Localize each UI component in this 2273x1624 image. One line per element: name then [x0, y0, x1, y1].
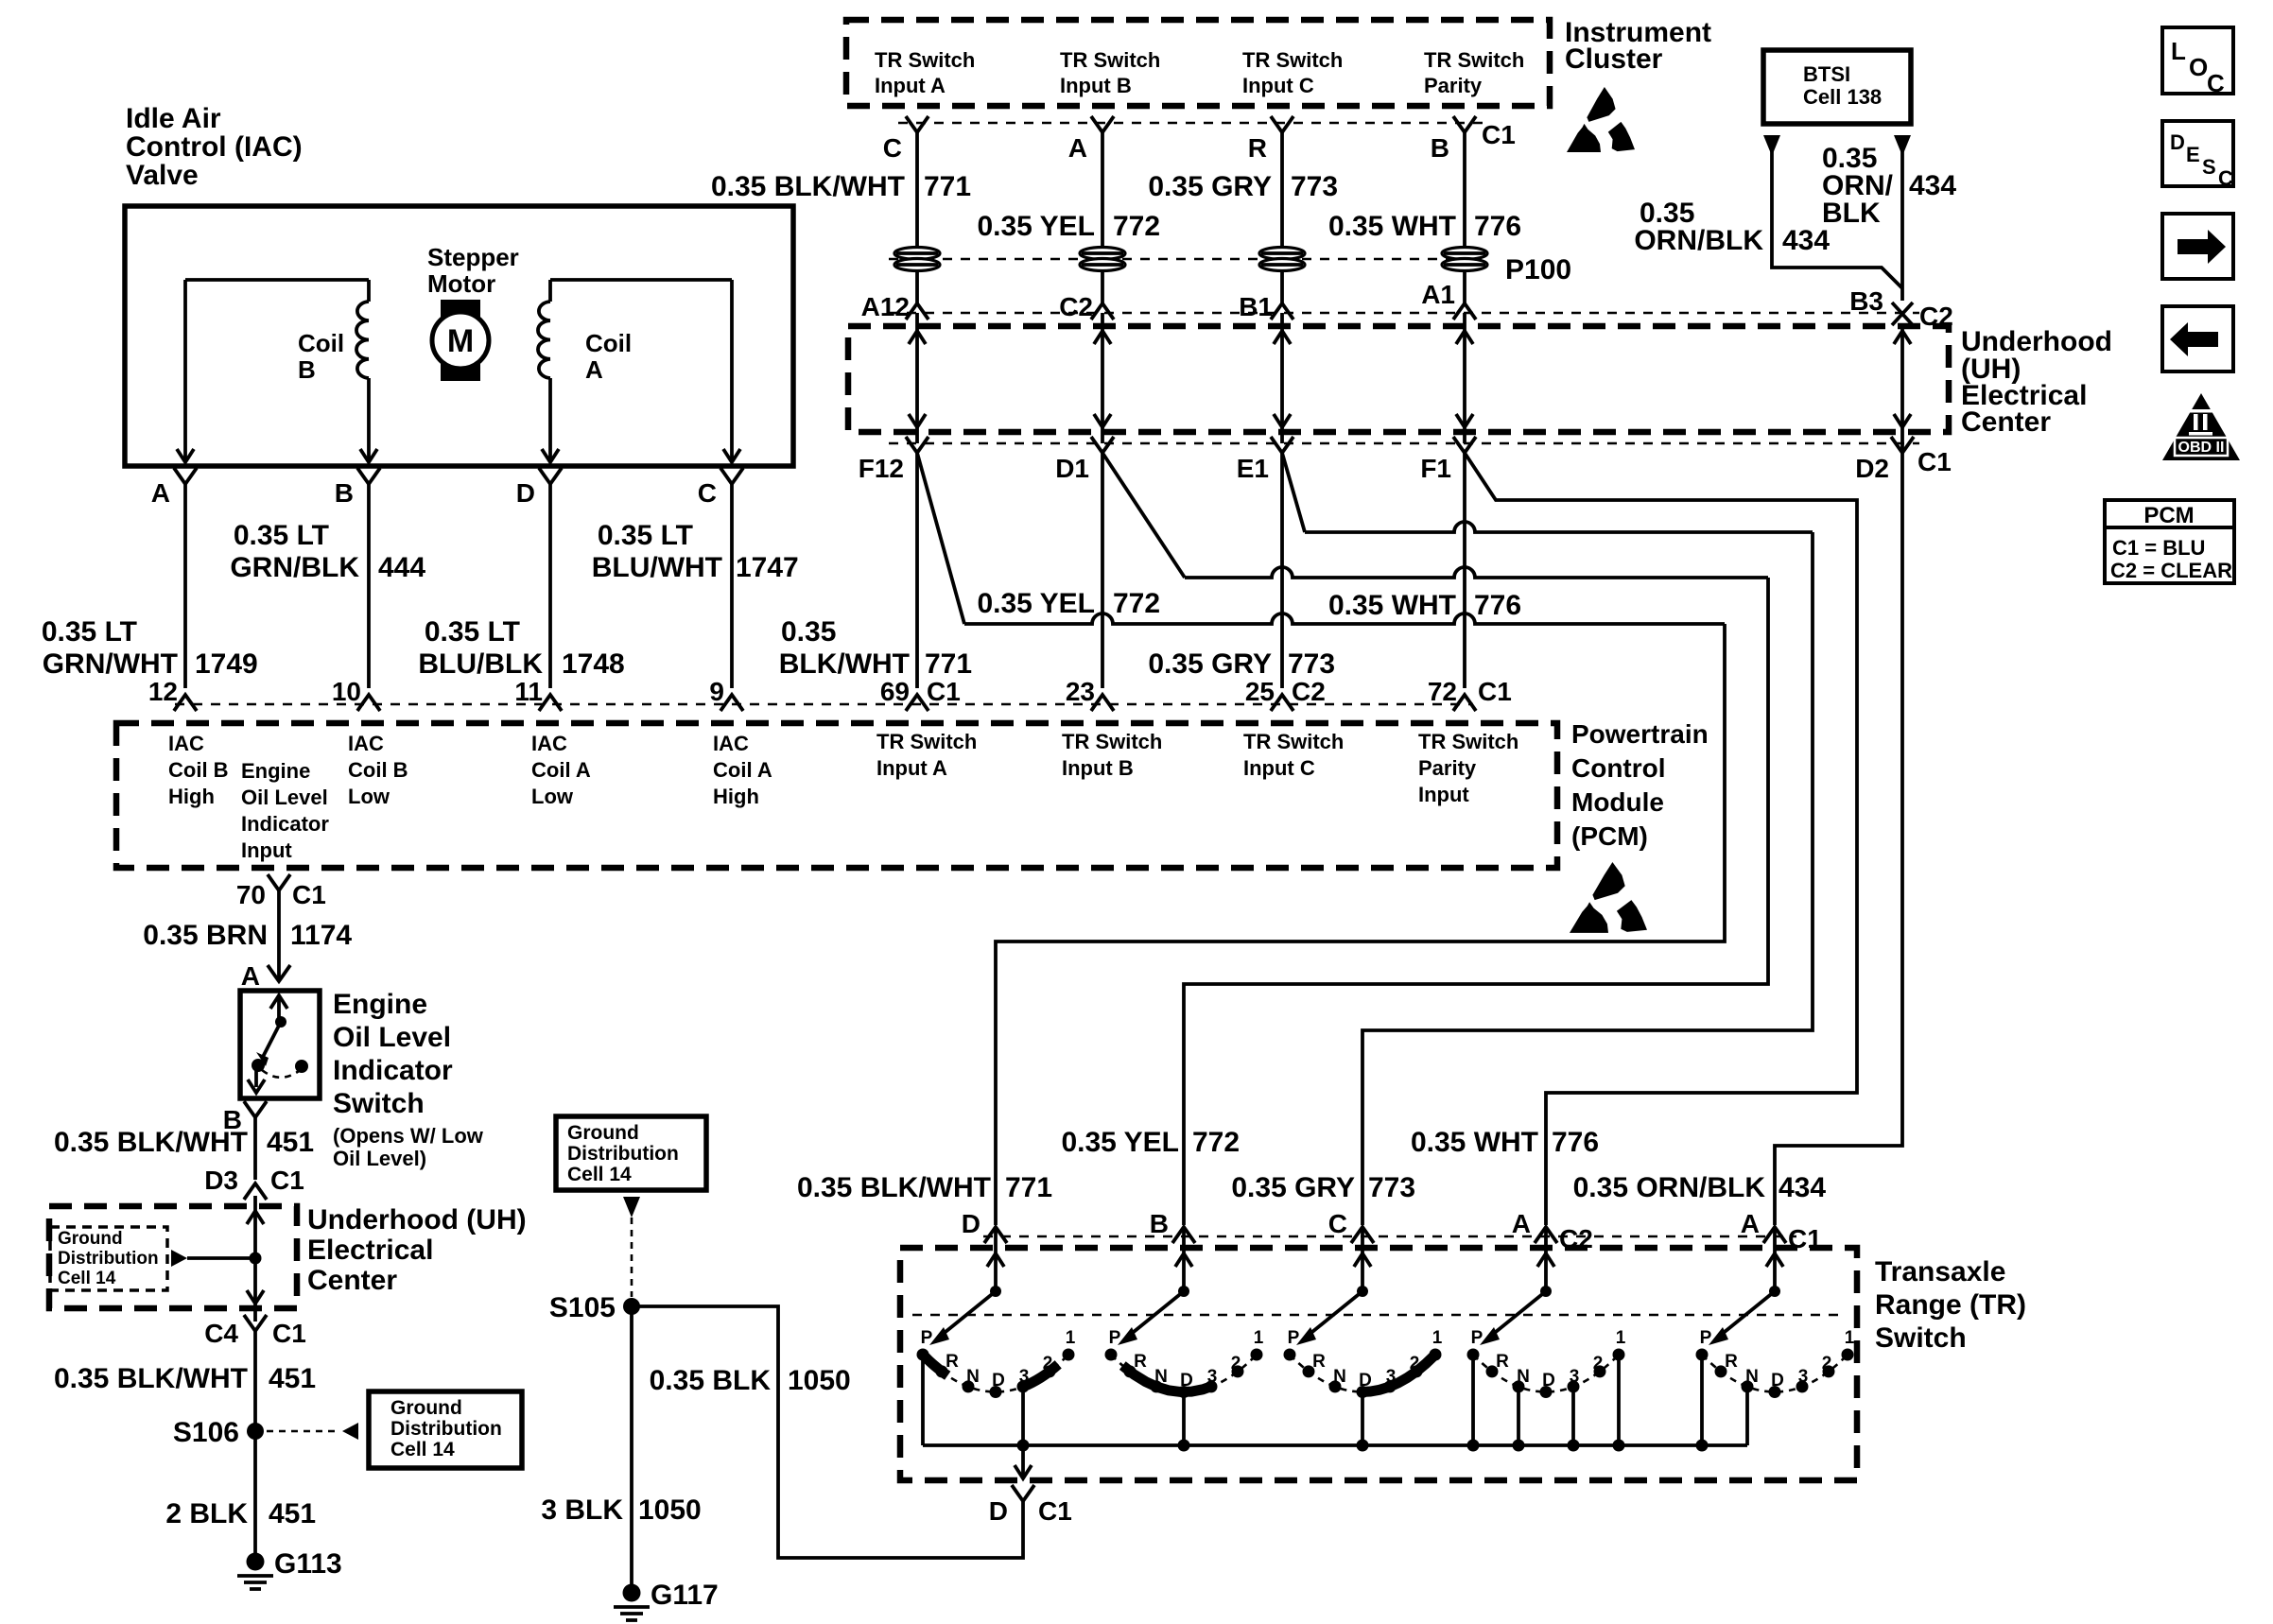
IAC pin B fork [357, 468, 380, 484]
wire through UH electrical center [1101, 313, 1104, 443]
arrowhead (S106 reference) [342, 1423, 358, 1440]
svg-text:2: 2 [1231, 1354, 1241, 1373]
svg-text:D: D [992, 1371, 1005, 1391]
svg-text:Coil: Coil [585, 329, 632, 357]
wire through UH electrical center [1463, 313, 1466, 443]
svg-text:C1: C1 [272, 1319, 306, 1348]
pin F1 fork [1453, 437, 1476, 453]
svg-text:Electrical: Electrical [307, 1235, 433, 1266]
TR bus junction dot [1568, 1440, 1580, 1452]
svg-text:0.35 ORN/BLK: 0.35 ORN/BLK [1573, 1172, 1766, 1203]
Underhood Electrical Center dashed box [848, 326, 1949, 432]
svg-text:1: 1 [1066, 1328, 1076, 1348]
svg-text:771: 771 [924, 171, 971, 202]
svg-text:P: P [1288, 1328, 1300, 1348]
coil B winding [356, 302, 369, 378]
svg-text:1: 1 [1616, 1328, 1626, 1348]
stepper motor M symbol [441, 300, 480, 381]
pin C4 fork [244, 1315, 267, 1331]
svg-text:L: L [2171, 37, 2186, 65]
svg-text:1: 1 [1254, 1328, 1264, 1348]
ground G113 [247, 1553, 265, 1571]
TR bus junction dot [1613, 1440, 1625, 1452]
svg-text:0.35 GRY: 0.35 GRY [1231, 1172, 1355, 1203]
arrowhead pin B internal [360, 449, 377, 462]
wire 451 (UH EC to S106) [253, 1331, 257, 1431]
svg-text:F1: F1 [1420, 454, 1451, 483]
svg-text:3: 3 [1570, 1367, 1580, 1387]
svg-text:ORN/BLK: ORN/BLK [1634, 225, 1763, 256]
arrowhead up (UH EC) [1274, 331, 1291, 344]
icon left-arrow [2188, 332, 2218, 347]
arrowhead (BTSI right wire) [1894, 135, 1911, 156]
arrowhead down (UH EC lower) [247, 1290, 264, 1304]
TR bus junction dot [1467, 1440, 1480, 1452]
PCM pin 12 fork [174, 695, 197, 711]
svg-text:0.35 BLK/WHT: 0.35 BLK/WHT [54, 1363, 248, 1394]
svg-text:Module: Module [1571, 787, 1664, 817]
svg-text:9: 9 [709, 677, 724, 706]
svg-text:A: A [241, 961, 260, 991]
IAC pin C fork [720, 468, 743, 484]
oil switch pivot dot [275, 1016, 286, 1028]
svg-text:1: 1 [1845, 1328, 1855, 1348]
svg-text:Stepper: Stepper [427, 243, 519, 271]
svg-text:Ground: Ground [567, 1122, 639, 1144]
svg-text:772: 772 [1192, 1127, 1240, 1158]
svg-text:Coil A: Coil A [531, 758, 591, 782]
wire IAC pin C to PCM [730, 484, 734, 688]
arrowhead pin A internal [177, 449, 194, 462]
svg-text:1174: 1174 [290, 920, 352, 951]
svg-text:A: A [585, 355, 603, 384]
TR bus junction dot [1017, 1440, 1030, 1452]
coil B wire to pin B [367, 280, 371, 302]
wire 776 to PCM pin 72 [1463, 453, 1466, 688]
svg-text:0.35 LT: 0.35 LT [598, 520, 693, 551]
svg-text:Indicator: Indicator [333, 1055, 453, 1086]
svg-text:Input B: Input B [1060, 74, 1132, 97]
wire 1174 (pin70 to switch) [277, 890, 281, 981]
ground G117 [623, 1584, 641, 1602]
svg-text:D: D [1359, 1371, 1372, 1391]
coil A winding [538, 302, 550, 378]
svg-text:D2: D2 [1855, 454, 1889, 483]
arrowhead down (UH EC) [1894, 414, 1911, 427]
svg-text:C1 = BLU: C1 = BLU [2112, 536, 2205, 560]
svg-text:Cell 14: Cell 14 [390, 1439, 455, 1460]
svg-text:773: 773 [1288, 648, 1335, 680]
svg-text:0.35 YEL: 0.35 YEL [1061, 1127, 1179, 1158]
svg-text:Control: Control [1571, 753, 1666, 783]
svg-text:P: P [1109, 1328, 1121, 1348]
svg-text:Cell 14: Cell 14 [58, 1269, 116, 1288]
PCM dashed box [116, 723, 1557, 868]
arrowhead up (UH EC lower) [247, 1211, 264, 1224]
svg-text:Input B: Input B [1062, 756, 1134, 780]
arrowhead pin C internal [723, 449, 740, 462]
connector X fork B3/C2 [1892, 302, 1913, 325]
ground distribution box (S105) [556, 1116, 706, 1190]
svg-text:C1: C1 [270, 1166, 304, 1195]
svg-text:E: E [2186, 143, 2200, 166]
icon right-arrow [2178, 239, 2208, 254]
svg-text:0.35: 0.35 [781, 616, 836, 648]
svg-text:D3: D3 [204, 1166, 238, 1195]
svg-text:Oil Level: Oil Level [241, 786, 328, 809]
dashed reference wire (S106) [267, 1430, 338, 1433]
svg-text:N: N [1333, 1367, 1346, 1387]
svg-text:10: 10 [332, 677, 361, 706]
BTSI box [1763, 50, 1911, 124]
svg-text:GRN/WHT: GRN/WHT [43, 648, 178, 680]
svg-text:N: N [1154, 1367, 1168, 1387]
svg-text:P100: P100 [1505, 254, 1571, 285]
PCM pin 70 fork [268, 874, 290, 890]
svg-text:TR Switch: TR Switch [876, 730, 977, 753]
wire 771 (IC pin C to P100) [915, 132, 919, 248]
svg-text:D: D [2170, 130, 2185, 154]
PCM pin 25 fork [1271, 695, 1293, 711]
pin D1 fork [1091, 437, 1114, 453]
svg-text:Input A: Input A [876, 756, 947, 780]
arrowhead up (UH EC) [1456, 331, 1473, 344]
svg-text:0.35 BRN: 0.35 BRN [143, 920, 268, 951]
svg-text:C: C [2207, 69, 2225, 97]
svg-text:1050: 1050 [638, 1494, 702, 1526]
svg-text:D: D [962, 1209, 980, 1238]
svg-text:11: 11 [514, 677, 543, 706]
wire IAC pin A to PCM [183, 484, 187, 688]
wire IAC pin B to PCM [367, 484, 371, 688]
svg-text:Input: Input [241, 838, 292, 862]
svg-text:D1: D1 [1055, 454, 1089, 483]
wire 773 to PCM pin 25 [1280, 453, 1284, 688]
svg-text:Oil Level: Oil Level [333, 1022, 451, 1053]
svg-text:M: M [447, 323, 474, 359]
instrument cluster dashed box [846, 20, 1550, 106]
TR pin A fork [1763, 1227, 1786, 1243]
Underhood Electrical Center dashed box (lower) [49, 1206, 297, 1308]
engine oil level indicator switch box [240, 991, 320, 1098]
svg-text:C2: C2 [1059, 292, 1093, 321]
svg-text:R: R [1248, 133, 1267, 163]
svg-text:D: D [1180, 1371, 1193, 1391]
TR bus junction dot [1357, 1440, 1369, 1452]
svg-text:Control (IAC): Control (IAC) [126, 131, 303, 163]
oil switch wiper arm [262, 1022, 281, 1059]
inline connector P100 on wire 776 [1442, 248, 1487, 260]
TR bus junction dot [1696, 1440, 1709, 1452]
inline connector P100 on wire 773 [1259, 248, 1305, 260]
svg-text:C: C [1328, 1209, 1347, 1238]
svg-text:C1: C1 [1038, 1496, 1072, 1526]
svg-text:B: B [335, 478, 354, 508]
svg-text:772: 772 [1113, 211, 1160, 242]
TR switch element 2 (pin B net 772) [1182, 1227, 1186, 1291]
pin F12 fork [906, 437, 928, 453]
svg-text:BTSI: BTSI [1803, 62, 1850, 86]
pin A fork (instrument cluster) [1091, 116, 1114, 132]
svg-text:B: B [1431, 133, 1449, 163]
svg-text:Center: Center [307, 1265, 397, 1296]
svg-text:Ground: Ground [390, 1397, 462, 1419]
svg-text:0.35 GRY: 0.35 GRY [1148, 648, 1272, 680]
wire 772 (IC pin A to P100) [1101, 132, 1104, 248]
PCM pin 11 fork [539, 695, 562, 711]
svg-text:0.35 WHT: 0.35 WHT [1411, 1127, 1538, 1158]
pin R fork (instrument cluster) [1271, 116, 1293, 132]
svg-text:Transaxle: Transaxle [1875, 1256, 2005, 1287]
svg-text:72: 72 [1428, 677, 1457, 706]
svg-text:434: 434 [1782, 225, 1830, 256]
icon left-arrow box [2162, 306, 2233, 371]
svg-text:A: A [1068, 133, 1087, 163]
wire through UH electrical center [1900, 325, 1904, 443]
svg-text:Input C: Input C [1243, 756, 1315, 780]
svg-text:High: High [713, 785, 759, 808]
inline connector P100 on wire 771 [894, 248, 940, 260]
oil switch travel arc [262, 1070, 299, 1078]
svg-text:F12: F12 [859, 454, 904, 483]
arrowhead up (UH EC) [909, 331, 926, 344]
svg-text:3: 3 [1019, 1367, 1030, 1387]
svg-text:IAC: IAC [348, 732, 384, 755]
svg-text:0.35 YEL: 0.35 YEL [977, 211, 1095, 242]
svg-text:R: R [946, 1352, 959, 1372]
oil switch right contact dot [295, 1060, 308, 1073]
wire 434 right branch [1900, 151, 1904, 301]
oil switch contact dot [252, 1059, 265, 1072]
svg-text:R: R [1496, 1352, 1509, 1372]
svg-text:Input C: Input C [1242, 74, 1314, 97]
svg-text:P: P [1700, 1328, 1712, 1348]
svg-text:773: 773 [1368, 1172, 1415, 1203]
arrowhead down (UH EC) [1274, 414, 1291, 427]
svg-text:Powertrain: Powertrain [1571, 719, 1709, 749]
svg-text:C2: C2 [1292, 677, 1326, 706]
svg-text:25: 25 [1245, 677, 1275, 706]
wire IAC pin D to PCM [548, 484, 552, 688]
wire through UH electrical center [1280, 313, 1284, 443]
svg-text:776: 776 [1474, 211, 1521, 242]
svg-text:Cluster: Cluster [1565, 43, 1663, 75]
svg-text:Idle Air: Idle Air [126, 103, 221, 134]
svg-text:Coil B: Coil B [348, 758, 408, 782]
svg-text:0.35 WHT: 0.35 WHT [1328, 211, 1456, 242]
svg-text:451: 451 [269, 1363, 316, 1394]
TR pin C fork [1351, 1227, 1374, 1243]
wire to UH electrical center [1101, 270, 1104, 303]
splice S106 dot [247, 1423, 264, 1440]
svg-text:451: 451 [267, 1127, 314, 1158]
svg-text:G113: G113 [274, 1548, 342, 1580]
arrowhead up (UH EC) [1894, 331, 1911, 344]
svg-text:BLK: BLK [1822, 198, 1881, 229]
svg-text:N: N [1745, 1367, 1759, 1387]
svg-text:434: 434 [1909, 170, 1956, 201]
coil B left wire [183, 280, 187, 462]
svg-text:D: D [516, 478, 535, 508]
svg-text:P: P [921, 1328, 933, 1348]
svg-text:TR Switch: TR Switch [1243, 730, 1344, 753]
svg-text:0.35 YEL: 0.35 YEL [977, 588, 1095, 619]
IAC pin D fork [539, 468, 562, 484]
arrowhead pin D internal [542, 449, 559, 462]
svg-text:Distribution: Distribution [567, 1143, 679, 1165]
connector fork (P100 lower) [1453, 303, 1476, 320]
svg-text:1050: 1050 [788, 1365, 851, 1396]
svg-text:A: A [151, 478, 170, 508]
svg-text:C1: C1 [1482, 120, 1516, 149]
wire 1050 (S105 to TR switch) [632, 1306, 1023, 1558]
TR switch element 4 (pin A net 776) [1544, 1227, 1548, 1291]
dashed reference wire (S105) [631, 1218, 633, 1297]
svg-text:A1: A1 [1421, 280, 1455, 309]
wire 771 branch (F12 to TR) [917, 453, 964, 624]
svg-text:IAC: IAC [531, 732, 567, 755]
svg-text:B: B [298, 355, 316, 384]
connector dashed line (F12 row) [889, 442, 1919, 444]
icon DESC box [2162, 121, 2233, 186]
svg-text:Distribution: Distribution [58, 1249, 159, 1269]
svg-text:D: D [989, 1496, 1008, 1526]
svg-text:2 BLK: 2 BLK [165, 1498, 248, 1529]
wire through UH electrical center [915, 313, 919, 443]
svg-text:TR Switch: TR Switch [1062, 730, 1162, 753]
coil A right wire [730, 280, 734, 462]
inline connector P100 on wire 772 [1080, 248, 1125, 260]
TR connector dashed line [983, 1235, 1796, 1237]
wire 434 left branch [1772, 151, 1902, 288]
oil switch internal up arrow [277, 997, 281, 1022]
svg-text:Valve: Valve [126, 160, 199, 191]
svg-text:0.35 BLK/WHT: 0.35 BLK/WHT [54, 1127, 248, 1158]
TR pin B fork [1172, 1227, 1195, 1243]
svg-text:0.35 WHT: 0.35 WHT [1328, 590, 1456, 621]
svg-text:C1: C1 [1917, 447, 1952, 476]
svg-text:Underhood (UH): Underhood (UH) [307, 1204, 527, 1235]
svg-text:2: 2 [1822, 1354, 1832, 1373]
PCM pin 72 fork [1453, 695, 1476, 711]
svg-text:Cell 14: Cell 14 [567, 1164, 632, 1185]
svg-text:TR Switch: TR Switch [1424, 48, 1524, 72]
svg-text:772: 772 [1113, 588, 1160, 619]
arrowhead (S105 reference) [623, 1197, 640, 1218]
svg-text:776: 776 [1552, 1127, 1599, 1158]
arrow to wire (ground distribution) [171, 1250, 187, 1267]
svg-text:0.35 BLK: 0.35 BLK [650, 1365, 772, 1396]
coil B top rail [185, 278, 369, 282]
svg-text:A12: A12 [861, 292, 910, 321]
P100 dashed line [889, 258, 1475, 260]
wire 771 to PCM pin 69 [915, 453, 919, 688]
svg-text:P: P [1471, 1328, 1484, 1348]
svg-text:3: 3 [1798, 1367, 1809, 1387]
svg-text:C2 = CLEAR: C2 = CLEAR [2110, 559, 2232, 582]
coil A wire to pin D [548, 280, 552, 302]
svg-text:R: R [1312, 1352, 1326, 1372]
pin C fork (instrument cluster) [906, 116, 928, 132]
svg-text:23: 23 [1066, 677, 1095, 706]
svg-text:Motor: Motor [427, 269, 495, 298]
wire 434 (D2 to TR) [1775, 443, 1902, 1225]
ground distribution dashed box (UH EC) [50, 1227, 167, 1290]
svg-text:BLU/WHT: BLU/WHT [592, 552, 722, 583]
svg-text:Switch: Switch [333, 1088, 425, 1119]
svg-text:IAC: IAC [168, 732, 204, 755]
TR switch element 1 (pin D net 771) [994, 1227, 998, 1291]
svg-text:O: O [2189, 53, 2208, 81]
arrowhead (BTSI left wire) [1763, 135, 1780, 156]
svg-text:A: A [1512, 1209, 1531, 1238]
svg-text:70: 70 [236, 880, 266, 909]
splice S105 dot [623, 1298, 640, 1315]
svg-text:Coil A: Coil A [713, 758, 772, 782]
svg-text:Low: Low [348, 785, 390, 808]
svg-text:0.35 BLK/WHT: 0.35 BLK/WHT [797, 1172, 991, 1203]
svg-text:434: 434 [1778, 1172, 1826, 1203]
svg-text:3: 3 [1207, 1367, 1218, 1387]
IAC pin A fork [174, 468, 197, 484]
icon right-arrow box [2162, 214, 2233, 279]
Transaxle Range switch dashed box [900, 1248, 1857, 1480]
svg-text:451: 451 [269, 1498, 316, 1529]
PCM pin 69 fork [906, 695, 928, 711]
svg-text:(Opens W/ Low: (Opens W/ Low [333, 1124, 484, 1148]
wire 3 BLK 1050 (S105 to G117) [630, 1306, 633, 1586]
svg-text:Low: Low [531, 785, 574, 808]
ESD symbol (instrument cluster) [1587, 87, 1615, 122]
svg-text:C: C [698, 478, 717, 508]
wire 451 (oil switch to UH EC) [253, 1117, 257, 1180]
svg-text:Ground: Ground [58, 1229, 123, 1249]
TR output pin D fork [1012, 1485, 1034, 1501]
svg-text:D: D [1771, 1371, 1784, 1391]
svg-text:1747: 1747 [736, 552, 799, 583]
PCM legend divider [2105, 526, 2234, 529]
ground distribution box (S106) [369, 1391, 522, 1468]
svg-text:12: 12 [148, 677, 178, 706]
PCM legend box [2105, 500, 2234, 583]
TR switch bus wire [923, 1443, 1747, 1447]
svg-text:BLU/BLK: BLU/BLK [418, 648, 543, 680]
wire 776 branch (F1 to TR) [1465, 453, 1857, 1225]
oil switch pin B fork [244, 1101, 267, 1117]
svg-text:TR Switch: TR Switch [875, 48, 975, 72]
svg-text:S105: S105 [549, 1292, 616, 1323]
svg-text:Coil B: Coil B [168, 758, 229, 782]
ESD symbol (PCM) [1592, 862, 1624, 900]
IAC valve box [125, 206, 793, 466]
svg-text:Cell 138: Cell 138 [1803, 85, 1882, 109]
svg-text:C1: C1 [927, 677, 961, 706]
svg-text:0.35 LT: 0.35 LT [425, 616, 520, 648]
svg-text:N: N [1517, 1367, 1530, 1387]
svg-text:Coil: Coil [298, 329, 344, 357]
svg-text:C: C [883, 133, 902, 163]
svg-text:2: 2 [1043, 1354, 1053, 1373]
svg-text:Parity: Parity [1424, 74, 1483, 97]
svg-text:1: 1 [1432, 1328, 1443, 1348]
coil A top rail [550, 278, 732, 282]
TR output wire (pin D C1) [1021, 1445, 1025, 1477]
svg-text:TR Switch: TR Switch [1242, 48, 1343, 72]
wire 773 (IC pin R to P100) [1280, 132, 1284, 248]
svg-text:Engine: Engine [241, 759, 310, 783]
TR switch element 5 (pin A net 434) [1773, 1227, 1777, 1291]
svg-text:B: B [1150, 1209, 1169, 1238]
